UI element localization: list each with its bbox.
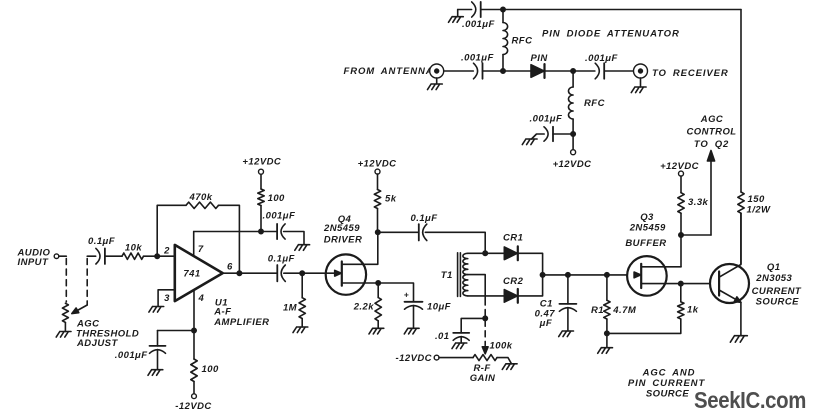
resistor 470k feedback [186,202,219,208]
svg-text:CR2: CR2 [503,276,524,287]
svg-text:0.1μF: 0.1μF [411,213,438,224]
Q4 gate arrow [326,270,342,276]
wire dashed tap to pot [484,299,486,346]
label CR1 [503,232,523,243]
svg-text:AGC AND: AGC AND [642,367,696,378]
Q3 drain line [641,266,681,268]
label 4.7M [612,305,637,316]
label AGC THRESHOLD ADJUST [76,318,139,349]
svg-text:ADJUST: ADJUST [76,338,118,349]
label 10k [125,242,142,253]
terminal +12VDC opamp [242,157,281,175]
node B junction [571,69,575,73]
resistor 100 pin4 [191,359,197,382]
svg-text:AMPLIFIER: AMPLIFIER [213,317,269,328]
node junction V+/100 [259,229,263,233]
wire T1 bottom to CR2 [468,295,505,297]
label 100k [490,341,513,352]
capacitor C1 0.47uF [559,304,576,311]
svg-text:-12VDC: -12VDC [175,401,212,412]
wire pin4 node to cap [158,331,195,346]
node junction T1 top [483,251,487,255]
wire node B to output cap [573,70,595,72]
label .001uF (pin4) [115,350,148,361]
wire pot to ground [64,322,66,331]
label U1 A-F AMPLIFIER [213,297,269,328]
ground for 10uF [404,328,419,334]
pin 6 label [227,262,233,273]
svg-text:+: + [404,289,409,299]
svg-text:.01: .01 [435,331,450,342]
label 2.2k [353,302,375,313]
ground for RF gain pot [502,364,517,370]
svg-text:PIN DIODE ATTENUATOR: PIN DIODE ATTENUATOR [542,29,680,40]
ground for R1 [598,348,613,354]
pin 4 label [198,293,205,304]
svg-text:2N3053: 2N3053 [755,273,792,284]
Q3 source line [641,283,719,285]
ground for top .001uF cap [449,10,472,23]
wire right bus down [740,10,742,193]
wire T1 tap [468,275,485,299]
node junction pin4/cap [192,328,196,332]
wire pin6 output [223,272,278,274]
label CR2 [503,276,524,287]
wire Q3 drain node to AGC arrow [681,234,711,236]
wire pin7 up [193,232,195,256]
ground for receiver connector [631,87,646,93]
capacitor .001uF pin4 [150,346,166,353]
wire pin3 to ground [158,290,175,307]
svg-text:5k: 5k [385,194,397,205]
svg-text:1/2W: 1/2W [747,204,772,215]
wire pin4 down [193,290,195,359]
wire R1 bottom to 1k bottom [607,319,681,333]
svg-text:0.1μF: 0.1μF [88,236,115,247]
svg-text:6: 6 [227,262,233,273]
svg-text:TO RECEIVER: TO RECEIVER [652,68,729,79]
svg-text:CURRENT: CURRENT [752,286,802,297]
wire source to 10uF [378,283,413,302]
wire emitter to ground [740,302,742,335]
Q4 drain line [342,232,378,264]
terminal -12VDC opamp [192,382,197,399]
svg-text:.001μF: .001μF [461,53,494,64]
node junction pin2/feedback [155,254,159,258]
terminal +12VDC attenuator [571,134,576,155]
svg-text:SOURCE: SOURCE [646,388,690,399]
ground for .01 [452,343,467,349]
wire detector to Q3 gate [543,274,628,276]
wire cap to T1 top [425,232,485,253]
svg-text:7: 7 [198,244,204,255]
terminal audio input [54,254,66,259]
label .001uF (cap3) [530,114,563,125]
connector J2 to-receiver [634,64,648,87]
capacitor .001uF antenna series [474,63,483,79]
Q4 source line [342,282,378,284]
svg-text:AGC: AGC [700,114,723,125]
node junction R1 bottom [605,331,609,335]
resistor 1M [299,273,305,327]
resistor 1k [678,284,684,319]
label 5k [385,194,397,205]
wire T1 top to winding [468,252,485,254]
svg-text:SOURCE: SOURCE [756,296,800,307]
wire .01 to ground [460,337,462,343]
node junction Q4 source [376,281,380,285]
wire +12VDC to 3.3k [680,176,682,193]
wire 3.3k to Q3 drain [680,213,682,267]
ground for Q1 [730,336,747,342]
wire CR1 cathode [518,253,543,275]
label 470k [189,192,213,203]
svg-text:GAIN: GAIN [470,373,496,384]
svg-text:100k: 100k [490,341,513,352]
Q4 channel bar [341,262,343,286]
ground for pot [56,332,71,338]
wire cap to node A [483,70,532,72]
capacitor .001uF receiver series [595,63,604,79]
svg-text:-12VDC: -12VDC [396,353,433,364]
diode CR1 [504,246,518,260]
ground for cap3 [522,139,537,145]
svg-text:+12VDC: +12VDC [358,159,397,170]
label .001uF (top-left cap) [462,19,495,30]
label .001uF (receiver cap) [585,53,618,64]
node junction output/feedback [237,271,241,275]
label Q1 2N3053 CURRENT SOURCE [752,262,802,307]
ground for pin4 cap [148,370,163,376]
wire pot to ground [497,358,512,364]
label .01 [435,331,450,342]
transformer T1 winding [463,253,468,296]
svg-text:.001μF: .001μF [263,211,296,222]
wire feedback up [157,205,186,256]
wire 10k to pin2 [144,255,175,257]
node junction Q3 source/1k [679,281,683,285]
svg-text:TO Q2: TO Q2 [694,139,729,150]
svg-text:FROM ANTENNA: FROM ANTENNA [344,66,434,77]
terminal +12VDC Q4 [358,159,397,175]
label 1/2W [747,204,772,215]
wire C1 to ground [567,308,569,331]
label R1 [591,305,604,316]
label PIN [531,53,549,64]
svg-text:4: 4 [198,293,205,304]
svg-text:100: 100 [202,364,219,375]
arrow AGC control to Q2 [707,151,714,236]
svg-text:RFC: RFC [584,98,605,109]
wire CR1 anode [485,252,504,254]
ground for C1 [559,331,574,337]
label AGC AND PIN CURRENT SOURCE [628,367,706,399]
svg-text:+12VDC: +12VDC [660,161,699,172]
inductor RFC2 [568,71,573,134]
transistor Q1 circle [710,264,749,303]
svg-text:+12VDC: +12VDC [553,159,592,170]
wire dashed input to pot top [65,259,67,303]
wire output cap to Q4 gate [284,272,326,274]
label 1k [687,304,699,315]
label RFC (RFC2) [584,98,605,109]
label AGC control line [686,114,736,150]
label 1M [283,302,298,313]
svg-text:1k: 1k [687,304,699,315]
svg-text:.001μF: .001μF [115,350,148,361]
wire C1 stem [567,275,569,304]
svg-text:PIN: PIN [531,53,549,64]
node junction detector out [540,273,544,277]
wire bypass cap to ground [284,232,304,245]
svg-text:.001μF: .001μF [462,19,495,30]
pin 2 label [163,246,170,257]
Q1 collector [719,213,741,277]
resistor R1 4.7M [604,275,610,348]
label 0.1uF (interstage) [411,213,438,224]
node junction drain/5k/cap [376,230,380,234]
transformer T1 core [458,253,461,297]
label 150 [748,194,765,205]
svg-text:DRIVER: DRIVER [324,234,363,245]
svg-text:2: 2 [163,246,170,257]
arrow tap onto 100k pot [482,347,488,354]
svg-text:INPUT: INPUT [18,257,49,268]
node junction 3.3k/AGC/drain [679,233,683,237]
node junction tap/.01 cap [483,316,487,320]
transistor Q3 circle [627,256,667,296]
watermark SeekIC.com [694,387,806,413]
wire -12 to pot [439,357,473,359]
diode CR2 [504,289,518,303]
wire feedback to output [219,205,240,273]
ground for V+ bypass [295,245,310,251]
wire node to bypass cap3 [553,133,573,135]
svg-text:3.3k: 3.3k [688,197,709,208]
label R-F GAIN [470,363,496,384]
svg-text:CR1: CR1 [503,232,523,243]
svg-text:4.7M: 4.7M [612,305,637,316]
wire 100 to V+ rail [260,206,262,232]
label 741 [183,269,200,280]
label -12VDC (opamp) [175,401,212,412]
terminal +12VDC Q3 branch [660,161,699,176]
node A junction [501,69,505,73]
svg-text:470k: 470k [189,192,213,203]
label 0.1uF (output) [268,254,295,265]
wire cap to ground [157,350,159,370]
Q3 channel bar [640,264,642,288]
wire +12 to 100 [260,174,262,189]
capacitor .001uF +12V side [544,127,553,141]
label 0.1uF (input) [88,236,115,247]
svg-text:Q3: Q3 [640,212,654,223]
node junction RFC2 bottom [571,132,575,136]
label .001uF (antenna cap) [461,53,494,64]
svg-text:SeekIC.com: SeekIC.com [694,387,806,413]
ground for antenna connector [428,84,443,90]
svg-text:Q1: Q1 [767,262,781,273]
label Q3 2N5459 BUFFER [625,212,666,249]
wire dashed to pot wiper [86,259,88,306]
svg-text:150: 150 [748,194,765,205]
svg-text:2N5459: 2N5459 [323,223,360,234]
svg-text:741: 741 [183,269,200,280]
wire cap to receiver connector [604,70,633,72]
connector J1 from-antenna [430,64,444,84]
svg-text:μF: μF [539,318,552,329]
wire V+ rail [194,231,277,233]
wire top bus from bypass cap to right edge [481,9,741,11]
svg-text:+12VDC: +12VDC [242,157,281,168]
wire tap node to .01 cap [461,318,485,333]
node junction R1 [605,273,609,277]
node junction C1 [566,273,570,277]
svg-text:.001μF: .001μF [530,114,563,125]
wire +12 to 5k [377,174,379,189]
op-amp U1 741 triangle [175,245,223,301]
label RFC (RFC1) [512,36,533,47]
label Q4 2N5459 DRIVER [323,214,362,246]
wire 5k to drain node [377,209,379,233]
resistor 150 1/2W [738,192,744,213]
transistor Q4 circle [326,254,366,294]
label FROM ANTENNA [344,66,434,77]
wire cap to 10k [105,255,122,257]
wire diode to node B [545,70,574,72]
resistor 100 opamp V+ [258,189,264,206]
pin 3 label [164,293,170,304]
svg-text:2N5459: 2N5459 [629,223,666,234]
inductor RFC1 [503,10,508,72]
node junction 1M/gate [300,271,304,275]
capacitor 0.1uF input [96,248,105,264]
svg-text:10k: 10k [125,242,142,253]
capacitor 10uF [404,289,423,309]
label 10uF [427,302,451,313]
label +12VDC (attenuator) [553,159,592,170]
wire 10uF to ground [413,306,415,329]
label TO RECEIVER [652,68,729,79]
svg-text:0.1μF: 0.1μF [268,254,295,265]
wire drain node to 0.1uF [378,231,419,233]
label C1 0.47 uF [535,298,556,329]
Q1 emitter [719,290,741,302]
wire to input cap [87,255,96,257]
svg-text:RFC: RFC [512,36,533,47]
label T1 [441,270,453,281]
Q1 base bar [718,272,720,296]
ground for 2.2k [369,328,384,334]
resistor 5k [374,190,380,209]
wire CR2 cathode [518,275,543,296]
svg-text:BUFFER: BUFFER [625,238,666,249]
resistor 3.3k [678,193,684,214]
Q3 gate arrow [634,272,641,278]
label 100 (V+) [268,193,285,204]
label PIN DIODE ATTENUATOR [542,29,680,40]
label .001uF (V+ bypass) [263,211,296,222]
svg-text:10μF: 10μF [427,302,451,313]
svg-text:.001μF: .001μF [585,53,618,64]
label AUDIO INPUT [17,247,51,267]
label 3.3k [688,197,709,208]
svg-text:2.2k: 2.2k [353,302,375,313]
resistor 2.2k [375,283,381,328]
svg-text:100: 100 [268,193,285,204]
wire cap3 to ground [532,134,545,139]
capacitor .01 [453,333,469,340]
ground for 1M [293,327,308,333]
capacitor .001uF top-left bypass [472,2,481,17]
capacitor .001uF V+ bypass [277,224,285,239]
svg-text:T1: T1 [441,270,453,281]
capacitor 0.1uF interstage [419,224,427,240]
svg-text:3: 3 [164,293,170,304]
node junction top bus / RFC1 [501,7,505,11]
label 100 (pin4) [202,364,219,375]
ground for pin3 [149,307,164,313]
svg-text:CONTROL: CONTROL [686,126,736,137]
capacitor 0.1uF output [277,265,285,281]
potentiometer 100k RF gain [473,355,497,361]
svg-text:1M: 1M [283,302,298,313]
potentiometer AGC threshold adjust [62,303,87,322]
resistor 10k [122,253,143,259]
svg-text:R1: R1 [591,305,604,316]
terminal -12VDC RF gain [396,353,440,364]
wire 150 to Q1 collector [740,213,742,264]
pin 7 label [198,244,204,255]
diode PIN [531,64,545,78]
wire antenna to cap [444,70,474,72]
